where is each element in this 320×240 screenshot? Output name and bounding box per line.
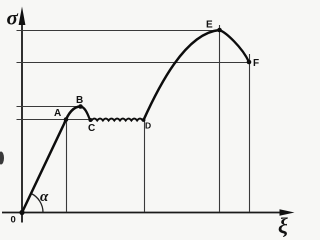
y-axis — [21, 22, 23, 223]
curve segment O to A to B (elastic + upper yield) — [22, 107, 81, 213]
vertical guide at A — [66, 120, 68, 213]
guide line level E — [17, 30, 220, 32]
guide line level B — [17, 106, 81, 108]
svg-text:α: α — [40, 189, 49, 205]
curve segment E to F (necking) — [220, 30, 250, 62]
svg-text:B: B — [76, 95, 83, 106]
svg-text:C: C — [88, 123, 95, 134]
x-axis — [2, 212, 282, 214]
x-axis arrowhead — [280, 209, 295, 215]
point F dot — [247, 60, 252, 65]
svg-text:D: D — [145, 121, 151, 131]
point E dot — [217, 28, 222, 33]
svg-text:σ: σ — [7, 6, 19, 30]
vertical guide at F — [249, 54, 251, 212]
svg-text:F: F — [253, 58, 259, 69]
vertical guide at D — [144, 120, 146, 212]
guide line level F — [17, 62, 250, 64]
wavy yield plateau C to D — [92, 119, 143, 121]
smudge on left edge — [0, 152, 4, 165]
curve segment D to E (strain hardening) — [143, 30, 219, 120]
point D dot — [142, 118, 146, 122]
point A dot — [64, 117, 69, 122]
vertical guide at E — [219, 25, 221, 212]
svg-text:E: E — [206, 20, 213, 31]
curve segment B to C (yield drop) — [81, 107, 90, 119]
point B dot — [78, 104, 83, 109]
point C dot — [89, 118, 93, 122]
guide line level A — [17, 119, 94, 121]
svg-text:ξ: ξ — [278, 213, 288, 238]
angle arc for alpha — [31, 193, 43, 212]
y-axis arrowhead — [19, 7, 26, 26]
point O dot — [19, 210, 24, 215]
svg-text:0: 0 — [11, 215, 16, 226]
svg-text:A: A — [54, 108, 61, 119]
